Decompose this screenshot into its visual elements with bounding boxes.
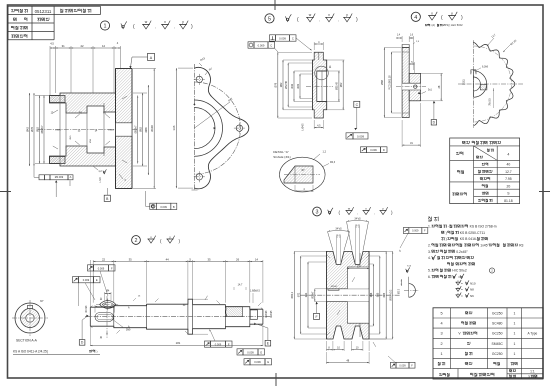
svg-text:34°±5: 34°±5 [354,218,361,221]
svg-text:x: x [328,13,330,17]
svg-text:30°: 30° [301,170,305,172]
svg-text:44: 44 [166,257,170,261]
svg-text:14: 14 [255,257,259,261]
svg-text:1,2: 1,2 [323,151,327,154]
svg-text:2: 2 [441,342,443,346]
svg-text:26: 26 [236,257,240,261]
svg-text:PCD Ø81.18: PCD Ø81.18 [388,75,391,90]
svg-text:0.009: 0.009 [412,230,419,233]
svg-text:L-Ø4,5: L-Ø4,5 [303,123,305,131]
svg-text:3: 3 [441,332,443,336]
svg-text:2: 2 [135,238,138,244]
svg-text:181: 181 [176,341,181,345]
svg-text:x: x [431,11,433,15]
svg-text:Ø20h6: Ø20h6 [266,310,268,318]
svg-text:1: 1 [513,342,515,346]
svg-text:Ø85: Ø85 [377,292,380,297]
svg-text:KS B 0416-: KS B 0416- [460,237,477,241]
svg-text:GC250: GC250 [492,311,503,315]
svg-text:31: 31 [62,44,66,48]
svg-text:136: 136 [172,125,176,130]
svg-text:19ØB: 19ØB [108,130,114,132]
svg-text:Ø88: Ø88 [380,79,384,84]
svg-text:Ø42: Ø42 [25,126,29,132]
svg-text:4.: 4. [428,256,431,260]
svg-text:81.18: 81.18 [504,199,513,203]
svg-text:4: 4 [507,152,509,156]
svg-text:0.009: 0.009 [258,44,265,48]
svg-text:Ø(31): Ø(31) [463,79,466,85]
svg-text:0.009: 0.009 [98,266,105,270]
svg-text:Ø20h5: Ø20h5 [271,310,273,318]
svg-text:SC480: SC480 [492,322,502,326]
svg-text:0.009: 0.009 [247,350,254,354]
svg-text:4: 4 [414,15,417,21]
svg-text:1: 1 [513,352,515,356]
svg-text:Ø108: Ø108 [150,125,154,132]
svg-text:3: 3 [528,375,530,379]
svg-text:A: A [70,175,72,179]
svg-text:SM45C: SM45C [492,342,504,346]
svg-text:1: 1 [441,352,443,356]
svg-text:(A): (A) [432,23,436,27]
svg-text:Ø42: Ø42 [291,83,294,88]
svg-text:): ) [446,231,447,235]
svg-text:35: 35 [207,257,211,261]
svg-text:y: y [451,11,453,15]
svg-text:Ø52h7: Ø52h7 [40,125,44,134]
svg-text:E: E [228,343,230,347]
svg-text:Ø76: Ø76 [275,82,278,87]
svg-text:Ø90,2: Ø90,2 [291,291,294,298]
svg-text:0.009: 0.009 [357,134,364,138]
svg-text:0512311: 0512311 [35,9,52,14]
svg-text:0.2x45°: 0.2x45° [456,250,468,254]
svg-text:-: - [448,225,449,229]
svg-text:35: 35 [129,257,133,261]
svg-text:Ø62: Ø62 [35,126,39,132]
svg-text:1.: 1. [428,225,431,229]
svg-text:x: x [164,20,166,24]
svg-text:=: = [461,288,463,292]
svg-text:,: , [374,211,375,215]
svg-text:,: , [174,24,175,29]
svg-text:Ø72: Ø72 [298,292,301,297]
svg-text:N8: N8 [470,288,474,292]
svg-text:KS B ISO 2768-m: KS B ISO 2768-m [470,225,497,229]
svg-text:D: D [383,148,385,152]
svg-text:3: 3 [316,210,319,216]
svg-text:78±0.5: 78±0.5 [489,98,492,106]
svg-text:SCALE (3/1): SCALE (3/1) [273,155,290,159]
svg-text:,: , [319,17,320,22]
svg-text:Ø0.009: Ø0.009 [55,175,64,179]
svg-text:y: y [346,13,348,17]
svg-text:0.009: 0.009 [279,37,286,41]
svg-text:C: C [292,37,294,41]
svg-text:N10: N10 [470,281,476,285]
svg-text:,: , [468,141,469,145]
svg-text:1: 1 [513,311,515,315]
svg-text:GC250: GC250 [492,332,503,336]
svg-text:KS A ISO 6411-A 2/4.25(: KS A ISO 6411-A 2/4.25( [13,350,49,354]
svg-text:Ø31H8: Ø31H8 [336,82,339,91]
svg-text:19ØB: 19ØB [55,130,61,132]
svg-text:F: F [315,315,317,319]
svg-text:1:1: 1:1 [530,369,535,373]
svg-text:Ø68: Ø68 [370,292,373,297]
svg-text:E: E [267,360,269,364]
svg-text:0.009: 0.009 [399,364,406,367]
svg-text:0.009: 0.009 [254,360,261,364]
svg-text:0.009: 0.009 [215,343,222,347]
svg-text:Ø17k6: Ø17k6 [86,305,88,312]
svg-text:Ø3.5: Ø3.5 [399,288,401,294]
svg-text:R0,3: R0,3 [330,161,336,164]
svg-text:): ) [97,350,98,354]
svg-text:Ø62: Ø62 [138,126,142,132]
svg-text:Ø25h7: Ø25h7 [312,291,315,299]
svg-text:7.95: 7.95 [505,177,512,181]
svg-text:5: 5 [268,17,271,23]
svg-text:12: 12 [102,44,106,48]
svg-text:,: , [357,211,358,215]
svg-text:Ø25h7: Ø25h7 [331,286,338,288]
svg-text:1: 1 [513,322,515,326]
svg-text:E: E [260,350,262,354]
svg-text:DETAIL "A": DETAIL "A" [273,150,289,154]
svg-text:R3: R3 [519,244,523,248]
svg-text:3.: 3. [428,250,431,254]
svg-text:6.: 6. [428,275,431,279]
svg-text:5.: 5. [428,269,431,273]
svg-text:5x1: 5x1 [428,89,433,92]
svg-text:1.6Ø±8.5: 1.6Ø±8.5 [250,290,260,293]
svg-text:Ø52: Ø52 [305,292,308,297]
svg-text:N6: N6 [470,294,474,298]
svg-text:0.009: 0.009 [370,148,377,152]
svg-text:5: 5 [441,311,443,315]
svg-text:0.009: 0.009 [160,205,167,209]
svg-text:Ø52: Ø52 [340,82,343,87]
svg-text:GC250: GC250 [492,352,503,356]
svg-text:ØP1∏ HsC 50±2: ØP1∏ HsC 50±2 [443,23,463,27]
svg-text:1x45°: 1x45° [480,244,489,248]
svg-text:40: 40 [507,163,511,167]
svg-text:A Type: A Type [528,332,538,336]
svg-text:=: = [458,275,460,279]
svg-text:,: , [338,17,339,22]
svg-text:y: y [182,20,184,24]
svg-text:=: = [461,281,463,285]
svg-text:Ø52H6: Ø52H6 [285,80,288,89]
svg-text:C: C [270,44,272,48]
svg-text:Ø88: Ø88 [144,127,148,133]
svg-text:0.009: 0.009 [83,278,90,282]
svg-text:Ø95: Ø95 [383,292,386,297]
svg-text:SECTION A-A: SECTION A-A [16,339,38,343]
svg-text:KS B 0250-CT11: KS B 0250-CT11 [460,231,485,235]
svg-text:34°±5: 34°±5 [335,228,342,231]
svg-text:14,7: 14,7 [238,284,243,287]
svg-text:,: , [155,24,156,29]
svg-text:30°: 30° [40,300,44,303]
svg-text:Ø32: Ø32 [297,83,300,88]
svg-text:12.7: 12.7 [505,170,512,174]
svg-text:B: B [173,205,175,209]
svg-text:E: E [96,278,98,282]
svg-text:=: = [461,294,463,298]
svg-text:5N9: 5N9 [126,329,131,332]
svg-text:1: 1 [104,24,107,30]
svg-text:Ø76: Ø76 [30,126,34,132]
svg-text:Ø62: Ø62 [280,82,283,87]
svg-text:6,3h9: 6,3h9 [482,66,489,69]
svg-text:HrC 50±2: HrC 50±2 [452,269,467,273]
svg-text:4,5: 4,5 [50,42,54,46]
svg-text:22: 22 [80,44,84,48]
svg-text:Ø52h7: Ø52h7 [134,125,138,134]
svg-text:Ø90,4±0,2: Ø90,4±0,2 [390,289,393,301]
svg-text:): ) [446,237,447,241]
svg-text:L-M4: L-M4 [99,177,102,183]
svg-text:4: 4 [441,322,443,326]
svg-text:22: 22 [102,257,106,261]
svg-text:1: 1 [513,332,515,336]
svg-text:20: 20 [507,184,511,188]
svg-text:2.: 2. [428,244,431,248]
